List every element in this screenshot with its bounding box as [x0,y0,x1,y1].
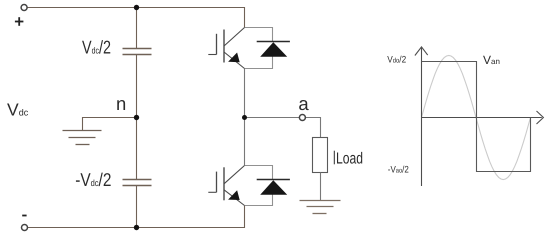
svg-text:a: a [298,93,309,114]
svg-text:n: n [116,93,126,114]
svg-text:Load: Load [336,150,363,167]
